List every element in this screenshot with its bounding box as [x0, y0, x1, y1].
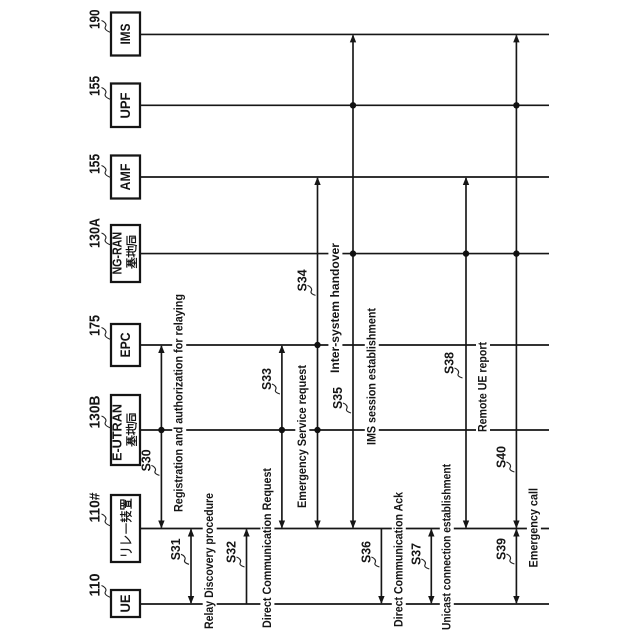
- svg-text:S37: S37: [409, 543, 423, 565]
- svg-text:175: 175: [87, 315, 104, 336]
- step label S32: [225, 541, 245, 567]
- entity box UPF 155: [111, 84, 140, 128]
- junction dot S34 at E-UTRAN: [314, 427, 320, 433]
- junction dot S35 at NG-RAN: [350, 250, 356, 256]
- message label S38 Remote UE report: [476, 341, 491, 434]
- svg-text:Remote UE report: Remote UE report: [476, 342, 490, 432]
- entity box IMS 190: [111, 13, 140, 56]
- step label S39: [494, 538, 514, 564]
- message label S36 Direct Communication Ack: [391, 491, 406, 629]
- junction dot S34 at EPC: [314, 342, 320, 348]
- message label S32 Direct Communication Request: [260, 467, 275, 630]
- entity box E-UTRAN base station 130B: [111, 395, 140, 465]
- ref number 155 UPF: [87, 76, 111, 100]
- entity box UE 110: [111, 590, 140, 617]
- svg-text:130B: 130B: [87, 395, 104, 428]
- svg-text:110#: 110#: [87, 492, 104, 523]
- arrow S40 relay-IMS: [513, 34, 519, 528]
- arrow S35 relay-IMS: [350, 34, 356, 528]
- svg-text:Relay Discovery procedure: Relay Discovery procedure: [202, 493, 216, 629]
- svg-text:130A: 130A: [87, 218, 104, 248]
- message label S31 Relay Discovery procedure: [202, 492, 217, 631]
- svg-text:190: 190: [87, 10, 104, 30]
- svg-text:S34: S34: [296, 269, 310, 291]
- svg-text:155: 155: [87, 76, 104, 96]
- svg-text:S33: S33: [260, 368, 274, 390]
- svg-text:Emergency Service request: Emergency Service request: [295, 365, 309, 508]
- junction dot S40 at NG-RAN: [513, 250, 519, 256]
- junction dot S35 at UPF: [350, 102, 356, 108]
- step label S30: [139, 449, 159, 475]
- message label S39 Emergency call: [526, 486, 541, 569]
- ref number 155 AMF: [87, 154, 111, 178]
- arrow S38 relay-AMF: [463, 177, 469, 529]
- svg-text:Direct Communication Request: Direct Communication Request: [260, 468, 274, 628]
- svg-text:S38: S38: [443, 352, 457, 374]
- svg-text:UPF: UPF: [117, 92, 133, 118]
- entity box AMF 155: [111, 156, 140, 199]
- svg-text:Direct Communication Ack: Direct Communication Ack: [391, 492, 405, 627]
- message label S37 Unicast connection establishment: [439, 463, 454, 632]
- arrow S37 UE-relay: [428, 529, 434, 605]
- svg-text:Emergency call: Emergency call: [526, 488, 540, 568]
- svg-text:Unicast connection establishme: Unicast connection establishment: [439, 464, 453, 630]
- lifeline E-UTRAN base station: [140, 429, 549, 431]
- svg-text:IMS session establishment: IMS session establishment: [364, 308, 378, 445]
- svg-text:S35: S35: [331, 387, 345, 409]
- svg-text:NG-RAN: NG-RAN: [111, 232, 125, 275]
- lifeline UE: [140, 603, 549, 605]
- ref number 110: [87, 574, 111, 598]
- ref number 110#: [87, 492, 111, 526]
- arrow S34 relay-AMF: [314, 177, 320, 529]
- lifeline AMF: [140, 176, 549, 178]
- junction dot S38 at NG-RAN: [463, 250, 469, 256]
- message label S33 Emergency Service request: [295, 364, 310, 510]
- svg-text:S32: S32: [225, 541, 239, 563]
- svg-text:E-UTRAN: E-UTRAN: [111, 404, 125, 461]
- message label S30 Registration and authorization for relaying: [172, 293, 187, 514]
- message label S35 IMS session establishment: [364, 307, 379, 447]
- step label S33: [260, 368, 280, 394]
- entity box EPC 175: [111, 324, 140, 366]
- arrow S31 UE-relay: [188, 529, 194, 605]
- svg-text:S31: S31: [169, 538, 183, 560]
- step label S35: [331, 387, 351, 413]
- junction dot S30 at E-UTRAN: [158, 427, 164, 433]
- arrow S33 relay-EPC: [279, 345, 285, 529]
- svg-text:IMS: IMS: [117, 24, 133, 45]
- arrow S39 UE-relay: [513, 529, 519, 605]
- svg-text:155: 155: [87, 154, 104, 174]
- svg-text:UE: UE: [117, 595, 133, 613]
- message label S34 Inter-system handover: [328, 242, 343, 375]
- svg-text:S30: S30: [139, 449, 153, 471]
- entity box relay UE 110#: [111, 495, 140, 562]
- lifeline EPC: [140, 344, 549, 346]
- junction dot S33 at E-UTRAN: [279, 427, 285, 433]
- step label S36: [359, 541, 379, 567]
- ref number 190: [87, 10, 111, 33]
- ref number 130B: [87, 395, 111, 428]
- entity box NG-RAN base station 130A: [111, 225, 140, 282]
- step label S34: [296, 269, 316, 295]
- ref number 130A: [87, 218, 111, 248]
- lifeline IMS: [140, 33, 549, 35]
- step label S31: [169, 538, 189, 564]
- step label S40: [494, 446, 514, 472]
- junction dot S40 at UPF: [513, 102, 519, 108]
- svg-text:110: 110: [87, 574, 104, 597]
- svg-text:S40: S40: [494, 446, 508, 468]
- svg-text:S36: S36: [359, 541, 373, 563]
- svg-text:EPC: EPC: [117, 333, 133, 358]
- svg-text:Inter-system handover: Inter-system handover: [328, 243, 342, 373]
- arrow S32 UE to relay: [243, 529, 249, 605]
- svg-text:Registration and authorization: Registration and authorization for relay…: [172, 294, 186, 512]
- lifeline NG-RAN base station: [140, 253, 549, 255]
- arrow S36 relay to UE: [378, 529, 384, 605]
- step label S38: [443, 352, 463, 378]
- svg-text:AMF: AMF: [117, 163, 133, 190]
- svg-text:S39: S39: [494, 538, 508, 560]
- lifeline UPF: [140, 104, 549, 106]
- ref number 175: [87, 315, 111, 340]
- arrow S30 relay-EPC: [158, 345, 164, 529]
- step label S37: [409, 543, 429, 569]
- lifeline relay UE 110#: [140, 528, 549, 530]
